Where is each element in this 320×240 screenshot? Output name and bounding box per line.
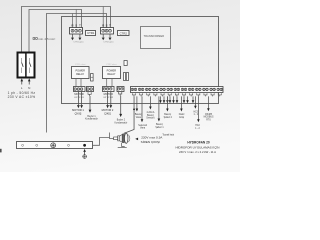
label pressure sensor xyxy=(146,111,155,120)
label box CTR2 xyxy=(118,31,130,36)
svg-text:CTR1: CTR1 xyxy=(87,31,95,35)
svg-text:Kondansatör: Kondansatör xyxy=(115,121,128,124)
wire relay1 to motor1 b xyxy=(80,79,82,87)
label box CTR1 xyxy=(86,31,96,36)
breaker input arrow L xyxy=(21,78,24,81)
io wire siren output xyxy=(124,96,135,133)
contactor2 output arrow a xyxy=(102,38,105,41)
svg-text:230 V AC ±10%: 230 V AC ±10% xyxy=(8,95,36,99)
power relay 2 xyxy=(103,67,121,79)
svg-text:Vana: Vana xyxy=(140,128,146,130)
contactor CTR1 terminals R S T xyxy=(70,24,83,34)
io strip pair brackets xyxy=(132,93,221,96)
svg-text:ÇIKIŞ: ÇIKIŞ xyxy=(75,111,82,115)
aux block capacitor 2 xyxy=(117,87,124,92)
earth arrow xyxy=(83,149,86,152)
svg-text:1 - 2: 1 - 2 xyxy=(193,114,198,116)
contactor2 output arrow b xyxy=(109,38,112,41)
capacitor1 arrow xyxy=(89,110,92,113)
io wire float input xyxy=(180,96,183,111)
svg-text:RELAY: RELAY xyxy=(76,73,84,76)
io wire solenoid valve xyxy=(141,96,144,122)
contactor CTR2 terminals R S T xyxy=(101,24,114,34)
enclosure panel xyxy=(62,17,219,104)
wire W3 top run xyxy=(47,14,107,133)
svg-text:1 - 2: 1 - 2 xyxy=(195,128,200,130)
svg-text:Kondansatör: Kondansatör xyxy=(85,118,98,121)
svg-text:Basınç: Basınç xyxy=(135,114,143,116)
svg-text:RS485: RS485 xyxy=(205,114,213,116)
capacitor2 wire xyxy=(120,96,122,114)
bottom left earth strip xyxy=(17,142,93,149)
svg-text:HC2: HC2 xyxy=(195,125,200,127)
svg-text:CTR2 girisi: CTR2 girisi xyxy=(103,41,114,44)
label pressure switch 2 xyxy=(164,114,173,119)
earth wire xyxy=(84,151,86,154)
svg-text:Basınç: Basınç xyxy=(164,114,172,116)
breaker input arrow N xyxy=(28,78,31,81)
fuse F1 xyxy=(91,74,94,82)
wire stub contactor1 S xyxy=(75,10,77,28)
wire N feeder xyxy=(29,10,82,53)
bracket capacitor 1 xyxy=(88,92,91,96)
fuse F2 upper xyxy=(124,61,127,66)
svg-text:MOTOR: MOTOR xyxy=(74,93,83,96)
capacitor1 wire xyxy=(89,96,91,110)
svg-text:Basınç: Basınç xyxy=(156,124,164,126)
svg-text:SİREN ÇIKIŞI: SİREN ÇIKIŞI xyxy=(141,139,160,144)
label float input xyxy=(179,113,185,119)
svg-text:HC3: HC3 xyxy=(193,111,198,113)
contactor2 output wire a xyxy=(102,34,104,38)
svg-text:Toprak hattı: Toprak hattı xyxy=(162,133,174,136)
label hc3 xyxy=(193,111,198,116)
svg-text:min. 2,5 mm²: min. 2,5 mm² xyxy=(38,37,55,41)
bracket capacitor 2 xyxy=(119,92,122,96)
svg-text:L: L xyxy=(21,86,23,90)
wire relay2 to motor2 b xyxy=(111,79,113,87)
wire to earth strip xyxy=(93,138,110,146)
wire neutral return xyxy=(110,133,114,139)
wire stub contactor1 R xyxy=(72,14,74,28)
label wire size min 2.5mm2 xyxy=(33,37,55,41)
motor2 output wire a xyxy=(107,92,109,106)
io wire hc3 xyxy=(194,96,197,108)
svg-text:230 V / max. 2 x 2.2 kW - 11 A: 230 V / max. 2 x 2.2 kW - 11 A xyxy=(179,150,216,154)
motor 2 terminal block xyxy=(103,87,115,92)
motor2 output arrow b xyxy=(109,105,112,108)
svg-text:MOTOR: MOTOR xyxy=(104,93,113,96)
breaker input wire L xyxy=(21,81,23,85)
motor1 output wire a xyxy=(77,92,79,106)
svg-text:CTR2: CTR2 xyxy=(120,31,128,35)
siren callout arrow xyxy=(135,138,138,141)
svg-text:CTR1 rolesi: CTR1 rolesi xyxy=(75,64,86,66)
svg-text:S: S xyxy=(75,24,77,28)
svg-text:CTR2 rolesi: CTR2 rolesi xyxy=(106,64,117,66)
svg-text:Flatör: Flatör xyxy=(179,113,185,116)
wire L feeder xyxy=(22,7,111,53)
transformer T1 xyxy=(141,27,171,49)
svg-text:HİDROFOR UYGULAMASI İÇİN: HİDROFOR UYGULAMASI İÇİN xyxy=(175,144,219,149)
wire relay1 to motor1 xyxy=(75,79,77,87)
io wire rs485 xyxy=(207,96,210,111)
contactor1 output wire b xyxy=(79,34,81,38)
svg-text:U1 V1 W1: U1 V1 W1 xyxy=(74,97,84,99)
io edge arrows xyxy=(159,96,194,103)
earth symbol xyxy=(82,154,86,158)
wire stub contactor2 R xyxy=(102,7,104,28)
svg-text:Boyler 1: Boyler 1 xyxy=(87,115,96,118)
io wire pressure switch 2 xyxy=(166,96,169,111)
power relay 1 xyxy=(72,67,90,79)
label rs485 xyxy=(204,114,214,122)
motor1 output wire b xyxy=(81,92,83,106)
label siren output xyxy=(141,135,164,144)
label capacitor2 xyxy=(115,119,128,125)
svg-text:N: N xyxy=(28,86,30,90)
label hc2 xyxy=(195,125,200,130)
io wire pressure valve xyxy=(136,96,139,111)
motor1 output arrow a xyxy=(77,105,80,108)
contactor1 output arrow b xyxy=(78,38,81,41)
label pressure switch 1 xyxy=(155,124,164,129)
svg-text:S: S xyxy=(106,24,108,28)
io strip terminals xyxy=(131,88,222,91)
motor1 output arrow b xyxy=(80,105,83,108)
wire relay2 to motor2 xyxy=(106,79,108,87)
motor 1 terminal block xyxy=(74,87,86,92)
svg-text:TRANSFORMER: TRANSFORMER xyxy=(144,35,165,38)
svg-text:U2 V2 W2: U2 V2 W2 xyxy=(104,97,114,99)
svg-text:Basınç: Basınç xyxy=(147,115,155,117)
svg-text:Şalteri 1: Şalteri 1 xyxy=(155,126,164,129)
svg-text:4-20mA: 4-20mA xyxy=(147,111,155,114)
label pressure valve xyxy=(135,114,143,119)
contactor1 output arrow a xyxy=(71,38,74,41)
io wire pressure switch 1 xyxy=(158,96,161,121)
siren horn xyxy=(114,133,130,147)
svg-text:Sensörü: Sensörü xyxy=(146,117,155,120)
svg-text:RTU: RTU xyxy=(206,119,211,121)
label solenoid valve xyxy=(138,125,148,130)
svg-text:RELAY: RELAY xyxy=(107,73,115,76)
label motor1 output xyxy=(72,108,84,115)
io wire pressure sensor xyxy=(149,96,152,109)
svg-text:ÇIKIŞ: ÇIKIŞ xyxy=(104,111,111,115)
svg-text:Şalteri 2: Şalteri 2 xyxy=(164,116,173,119)
aux block capacitor 1 xyxy=(87,87,94,92)
svg-text:T: T xyxy=(109,24,111,28)
label motor2 output xyxy=(102,108,114,115)
svg-text:Girişi: Girişi xyxy=(179,116,185,119)
svg-text:Vana: Vana xyxy=(136,117,142,119)
label capacitor1 xyxy=(85,115,98,121)
svg-text:220V max 0.3A: 220V max 0.3A xyxy=(141,135,163,139)
circuit breaker Q1 xyxy=(18,52,35,78)
io terminal strip xyxy=(131,87,224,93)
motor2 output wire b xyxy=(110,92,112,106)
svg-text:T: T xyxy=(79,24,81,28)
edge speck xyxy=(0,149,2,153)
svg-text:CTR1 girisi: CTR1 girisi xyxy=(73,41,84,44)
svg-text:HYDROFAN 20: HYDROFAN 20 xyxy=(187,141,210,145)
contactor2 output wire b xyxy=(109,34,111,38)
svg-text:Boyler 2: Boyler 2 xyxy=(117,119,126,122)
svg-text:MODBUS: MODBUS xyxy=(204,117,214,119)
fuse F2 pair xyxy=(123,73,128,81)
breaker input wire N xyxy=(28,81,30,85)
io wire hc2 xyxy=(197,96,200,122)
svg-text:Selenoid: Selenoid xyxy=(138,125,148,127)
motor2 output arrow a xyxy=(106,105,109,108)
capacitor2 arrow xyxy=(119,114,122,117)
contactor1 output wire a xyxy=(72,34,74,38)
